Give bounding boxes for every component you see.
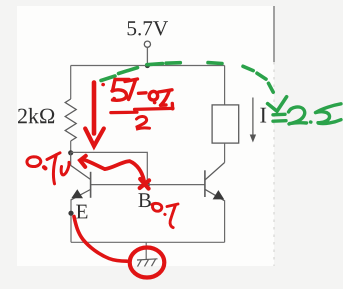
red fraction bar [111,108,173,112]
wire terminal to node [146,47,148,65]
wire resistor to node A [70,141,72,152]
red arrow down (through resistor current) [85,83,104,147]
wire bottom rail [71,241,225,243]
scanned paper area [17,6,274,266]
wire left branch down [70,66,72,100]
red denominator 2 [137,116,150,128]
transistor Q2 collector [205,163,225,181]
label B [138,193,150,207]
green result =2.5 [273,104,341,124]
node A collector junction [68,150,73,155]
current arrow I [250,98,256,143]
transistor Q1 base bar [90,172,92,198]
wire box to collector [224,143,226,162]
wire emitter Q2 down [224,200,226,242]
transistor Q1 collector [71,152,91,179]
wire node A to base drop [71,152,148,184]
resistor 2k [65,99,76,141]
red formula 5.7-0.7 [103,79,173,109]
wire right branch down [224,66,226,105]
red curve E to ground [74,217,127,262]
node B base junction [145,182,150,187]
red note 0.7 at B [152,203,178,227]
transistor Q2 emitter [205,189,225,201]
transistor Q1 emitter arrow [71,189,83,198]
red curved double arrow node A to B [80,156,149,189]
supply terminal [144,41,150,47]
scan right edge [273,6,275,266]
label E [76,205,87,219]
wire base bus [91,184,205,186]
red note 0.7 at node A [27,153,69,184]
transistor Q1 emitter [71,189,90,199]
node E emitter junction [68,211,73,216]
load box [212,105,239,143]
value label 2kOhm [18,108,54,123]
supply label 5.7V [128,21,168,35]
red circle around ground [130,248,165,278]
wire top rail [71,65,225,67]
label I [260,108,266,123]
green dashed annotation arrow [101,63,287,112]
ground [137,242,158,266]
transistor Q2 emitter arrow [213,190,225,199]
node supply junction [145,63,150,68]
transistor Q2 base bar [204,170,206,197]
wire emitter Q1 down [70,199,72,242]
